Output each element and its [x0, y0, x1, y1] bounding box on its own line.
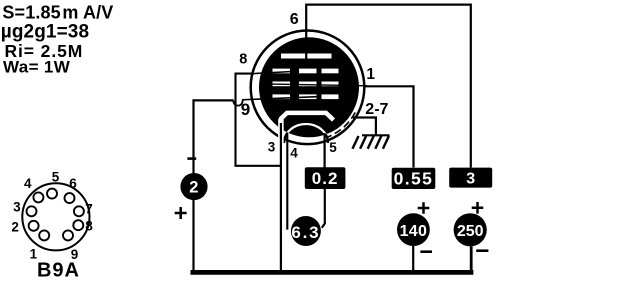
svg-text:1: 1	[366, 66, 375, 83]
minus sign of 140V	[420, 250, 432, 253]
svg-text:9: 9	[241, 100, 250, 119]
tube V1 envelope	[251, 31, 365, 145]
meter box 0.55mA screen current	[392, 168, 436, 189]
svg-text:2-7: 2-7	[365, 101, 388, 118]
svg-text:3: 3	[13, 199, 21, 214]
heater dome	[284, 124, 328, 143]
svg-text:6: 6	[69, 176, 77, 191]
svg-text:8: 8	[85, 219, 93, 234]
svg-text:S=1.85m A/V: S=1.85m A/V	[2, 3, 113, 23]
wire pins 2-7 to ground	[353, 118, 376, 135]
grid g1 lead	[242, 97, 317, 100]
wire pin9 to grid bias	[194, 100, 234, 173]
plus sign of 140V	[418, 202, 430, 214]
wire bias battery to rail	[192, 200, 194, 271]
plus sign of 250V	[472, 202, 484, 214]
base pin 6	[65, 193, 75, 203]
base pin 2	[29, 221, 39, 231]
meter box 0.2A heater current	[305, 167, 346, 189]
svg-text:140: 140	[400, 223, 428, 240]
wire 250V to rail	[470, 246, 473, 273]
wire anode pin6 to HT rail	[306, 5, 471, 168]
envelope shading ticks	[326, 112, 355, 137]
ground	[353, 135, 390, 149]
meter box 3mA anode current	[449, 168, 492, 188]
svg-text:250: 250	[457, 223, 484, 240]
base pin 1	[39, 230, 49, 240]
B9A base outline	[22, 183, 89, 250]
minus sign of 2V bias	[187, 157, 196, 160]
svg-text:4: 4	[290, 146, 298, 161]
svg-text:6: 6	[290, 11, 299, 28]
grid g3 row dashes	[273, 69, 339, 74]
base pin 4	[33, 192, 43, 202]
battery 2V grid bias	[180, 173, 207, 200]
svg-text:0.55: 0.55	[394, 169, 434, 189]
grid g1 lead hook	[233, 100, 242, 105]
svg-text:7: 7	[85, 202, 93, 217]
base pin 7	[74, 206, 84, 216]
wire pin1 to screen supply	[364, 86, 414, 167]
svg-text:5: 5	[329, 140, 337, 155]
plus sign of 2V bias	[175, 207, 187, 219]
minus sign of 250V	[476, 249, 488, 252]
anode supply 250V	[454, 213, 487, 246]
svg-text:8: 8	[239, 52, 247, 68]
svg-text:0.2: 0.2	[312, 169, 339, 188]
cathode	[281, 113, 334, 125]
base pin 8	[73, 220, 83, 230]
wire pin8 to cathode node	[253, 72, 292, 74]
grid g2 row dashes	[273, 82, 339, 87]
cathode lead pin3	[280, 123, 282, 271]
wire 140V to rail	[412, 246, 414, 271]
base pin 3	[27, 206, 37, 216]
svg-text:B9A: B9A	[37, 259, 80, 281]
svg-text:5: 5	[52, 170, 60, 185]
cathode lead halo	[278, 119, 284, 150]
svg-text:2: 2	[189, 179, 198, 197]
svg-text:6.3: 6.3	[291, 223, 320, 242]
svg-text:Wa= 1W: Wa= 1W	[3, 58, 71, 77]
svg-text:µg2g1=38: µg2g1=38	[1, 22, 89, 43]
anode plate bar	[281, 54, 332, 59]
svg-text:4: 4	[24, 176, 32, 191]
grid g2 lead	[272, 84, 367, 86]
base pin 5	[47, 189, 57, 199]
heater lead pin5 upper	[324, 133, 326, 168]
ground rail	[191, 270, 474, 275]
svg-text:2: 2	[11, 219, 19, 234]
tube V1 interior fill	[259, 37, 359, 137]
screen supply 140V	[397, 213, 430, 246]
grid g1 row dashes	[273, 94, 339, 99]
svg-text:3: 3	[268, 139, 276, 154]
base pin 9	[63, 230, 73, 240]
heater supply 6.3V	[291, 216, 321, 246]
svg-text:3: 3	[466, 170, 475, 187]
heater lead pin5 lower	[322, 189, 325, 228]
heater lead pin4	[286, 134, 288, 230]
